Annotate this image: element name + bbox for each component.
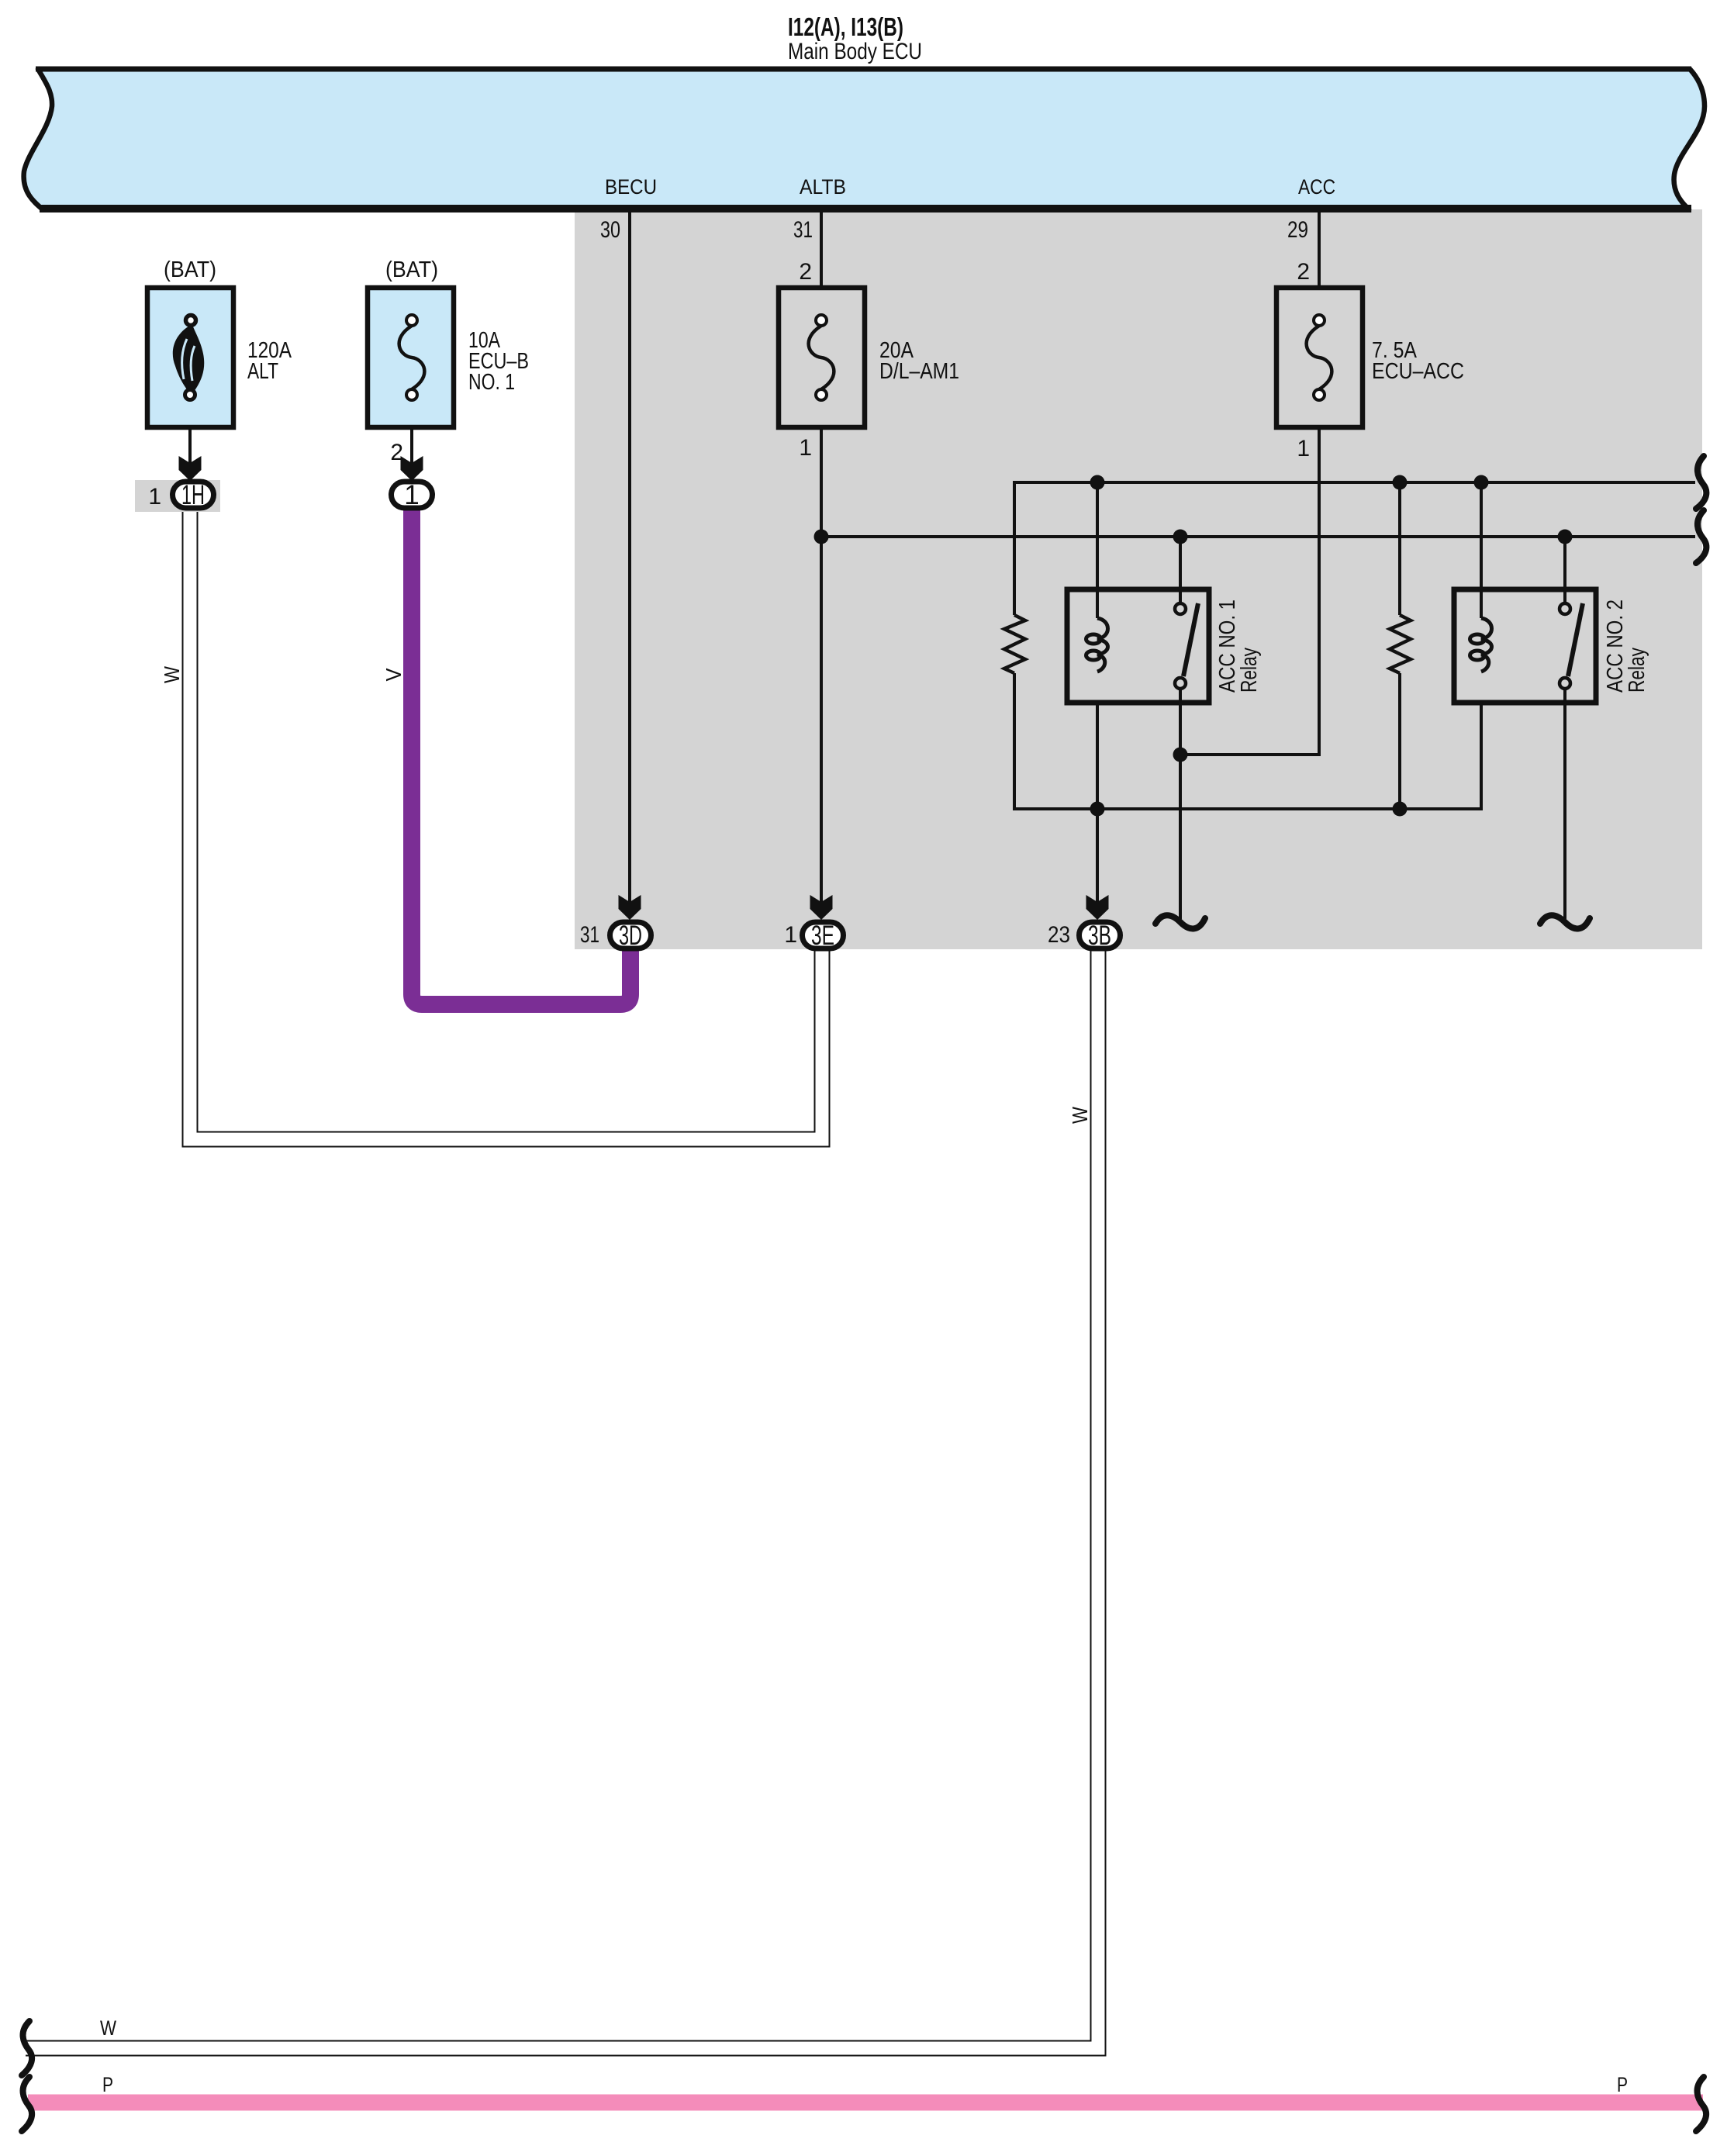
wire color label W (3B) xyxy=(1068,1107,1092,1124)
label ACC NO.1 Relay xyxy=(1215,599,1262,693)
label ACC NO.2 Relay xyxy=(1603,599,1649,693)
arrow into connector 3B xyxy=(1086,895,1109,920)
pin 29 (ACC) xyxy=(1287,217,1308,243)
arrow into connector 1 (ECU-B) xyxy=(401,456,423,481)
net label ALTB xyxy=(800,175,846,199)
pin 1 of connector 3E xyxy=(784,922,797,948)
svg-text:P: P xyxy=(102,2073,113,2096)
gray tag behind connector 1H xyxy=(135,480,220,512)
resistor R2 xyxy=(1390,482,1411,809)
wire P bottom bus (pink wire) xyxy=(28,2095,1703,2111)
svg-text:3B: 3B xyxy=(1088,921,1111,951)
junction node switch K1 on bus line 2 xyxy=(1173,530,1188,544)
to-other-system tilde under switch K1 xyxy=(1155,915,1205,928)
wire W from 3B to bottom bus (white wire) xyxy=(26,948,1098,2048)
svg-text:ACC: ACC xyxy=(1298,175,1335,199)
svg-text:W: W xyxy=(1068,1107,1092,1124)
wire fuse D/L-AM1 pin1 to connector 3E xyxy=(820,427,823,903)
wire V from connector 1 to 3D (violet wire) xyxy=(412,510,630,1004)
svg-text:ALTB: ALTB xyxy=(800,175,846,199)
break symbol P bus left xyxy=(22,2077,32,2131)
svg-text:Relay: Relay xyxy=(1237,648,1262,693)
svg-text:1: 1 xyxy=(148,484,161,510)
Main Body ECU connector band I12(A), I13(B) xyxy=(24,69,1705,209)
label (BAT) for fuse ALT xyxy=(164,257,216,282)
junction node switch K2 on bus line 2 xyxy=(1558,530,1573,544)
svg-text:(BAT): (BAT) xyxy=(164,257,216,282)
relay K1 ACC NO.1 Relay xyxy=(1067,537,1209,919)
svg-text:30: 30 xyxy=(600,217,620,243)
svg-text:D/L–AM1: D/L–AM1 xyxy=(879,359,959,384)
svg-text:31: 31 xyxy=(793,217,813,243)
svg-text:1: 1 xyxy=(784,922,797,948)
junction node resistor R2 on bus line 3 xyxy=(1393,802,1408,817)
bus line 2 (lower horizontal in ECU) xyxy=(821,535,1695,538)
relay K2 ACC NO.2 Relay xyxy=(1454,537,1596,919)
svg-text:(BAT): (BAT) xyxy=(385,257,438,282)
connector 3B oval xyxy=(1079,921,1121,951)
svg-text:I12(A), I13(B): I12(A), I13(B) xyxy=(788,12,903,41)
wire ACC pin29 to fuse ECU-ACC pin2 xyxy=(1318,212,1321,288)
arrow into connector 3E xyxy=(810,895,833,920)
pin 30 (BECU) xyxy=(600,217,620,243)
break symbol W bus left xyxy=(22,2021,32,2075)
net label BECU xyxy=(605,175,657,199)
fuse F3 20A D/L-AM1 xyxy=(779,288,865,427)
svg-text:2: 2 xyxy=(799,259,812,285)
value label 10A ECU-B NO.1 xyxy=(468,328,529,395)
svg-text:ECU–ACC: ECU–ACC xyxy=(1372,359,1464,384)
break symbol bus line 2 right xyxy=(1696,510,1706,563)
connector 3E oval xyxy=(803,921,844,951)
connector 1H oval xyxy=(173,480,214,510)
svg-text:1: 1 xyxy=(404,480,419,510)
svg-text:1: 1 xyxy=(799,435,812,461)
svg-text:BECU: BECU xyxy=(605,175,657,199)
fuse F1 120A ALT xyxy=(147,288,233,427)
wire color label W (bottom bus) xyxy=(100,2016,116,2040)
title Main Body ECU xyxy=(788,39,922,64)
title I12(A), I13(B) xyxy=(788,12,903,41)
svg-text:V: V xyxy=(382,668,406,681)
pin 1 of connector 1H xyxy=(148,484,161,510)
junction node coil K1 on bus line 3 xyxy=(1090,802,1105,817)
svg-text:P: P xyxy=(1617,2073,1628,2096)
bus line 1 (upper horizontal in ECU) xyxy=(1014,482,1695,615)
wire color label P left xyxy=(102,2073,113,2096)
arrow into connector 1H xyxy=(179,456,202,481)
junction node resistor R2 on bus line 1 xyxy=(1393,475,1408,490)
svg-text:31: 31 xyxy=(580,922,599,948)
svg-text:ALT: ALT xyxy=(247,359,278,384)
svg-text:NO. 1: NO. 1 xyxy=(468,370,515,395)
svg-text:W: W xyxy=(160,666,184,683)
pin 31 of connector 3D xyxy=(580,922,599,948)
relay coil wire K1 xyxy=(1096,482,1099,903)
fuse F2 10A ECU-B NO.1 xyxy=(368,288,454,427)
wire BECU pin30 to connector 3D xyxy=(628,212,631,903)
wire fuse ECU-ACC pin1 down and left to relay contact node xyxy=(1180,427,1319,755)
svg-text:1H: 1H xyxy=(181,480,205,510)
value label 7.5A ECU-ACC xyxy=(1372,338,1464,384)
junction node on ALTB at bus line 2 xyxy=(814,530,829,544)
wire fuse ECU-B pin2 to connector 1 xyxy=(410,427,413,465)
pin 1 of fuse ECU-ACC xyxy=(1297,436,1310,461)
pin 2 of fuse ECU-B xyxy=(390,440,403,465)
svg-text:1: 1 xyxy=(1297,436,1310,461)
svg-text:Relay: Relay xyxy=(1625,648,1649,693)
bus line 3 (bottom horizontal in ECU) xyxy=(1014,673,1481,809)
label (BAT) for fuse ECU-B xyxy=(385,257,438,282)
wire color label P right xyxy=(1617,2073,1628,2096)
svg-text:3E: 3E xyxy=(811,921,834,951)
wire color label V xyxy=(382,668,406,681)
svg-text:W: W xyxy=(100,2016,116,2040)
value label 120A ALT xyxy=(247,338,292,384)
junction node coil K1 on bus line 1 xyxy=(1090,475,1105,490)
wire color label W (1H-3E) xyxy=(160,666,184,683)
connector 1 oval (ECU-B) xyxy=(392,480,433,510)
arrow into connector 3D xyxy=(619,895,641,920)
fuse F4 7.5A ECU-ACC xyxy=(1276,288,1363,427)
wire fuse ALT pin1 to connector 1H xyxy=(188,427,192,465)
svg-text:2: 2 xyxy=(1297,259,1310,285)
wire W from 1H to 3E (white wire) xyxy=(190,508,822,1139)
pin 2 of fuse D/L-AM1 xyxy=(799,259,812,285)
svg-text:Main Body ECU: Main Body ECU xyxy=(788,39,922,64)
junction node ECU-ACC to switch K1 xyxy=(1173,748,1188,762)
to-other-system tilde under switch K2 xyxy=(1540,915,1590,928)
break symbol P bus right xyxy=(1696,2077,1706,2131)
connector 3D oval xyxy=(610,921,651,951)
pin 23 of connector 3B xyxy=(1048,922,1070,948)
resistor R1 xyxy=(1004,615,1025,673)
wire ALTB pin31 to fuse D/L-AM1 pin2 xyxy=(820,212,823,288)
net label ACC xyxy=(1298,175,1335,199)
svg-text:23: 23 xyxy=(1048,922,1070,948)
break symbol bus line 1 right xyxy=(1696,456,1706,509)
junction node coil K2 on bus line 1 xyxy=(1474,475,1489,490)
pin 1 of fuse D/L-AM1 xyxy=(799,435,812,461)
ECU internal shaded area xyxy=(575,209,1702,949)
relay coil wire K2 xyxy=(1480,482,1483,618)
value label 20A D/L-AM1 xyxy=(879,338,959,384)
pin 31 (ALTB) xyxy=(793,217,813,243)
svg-text:29: 29 xyxy=(1287,217,1308,243)
svg-text:3D: 3D xyxy=(619,921,642,951)
pin 2 of fuse ECU-ACC xyxy=(1297,259,1310,285)
